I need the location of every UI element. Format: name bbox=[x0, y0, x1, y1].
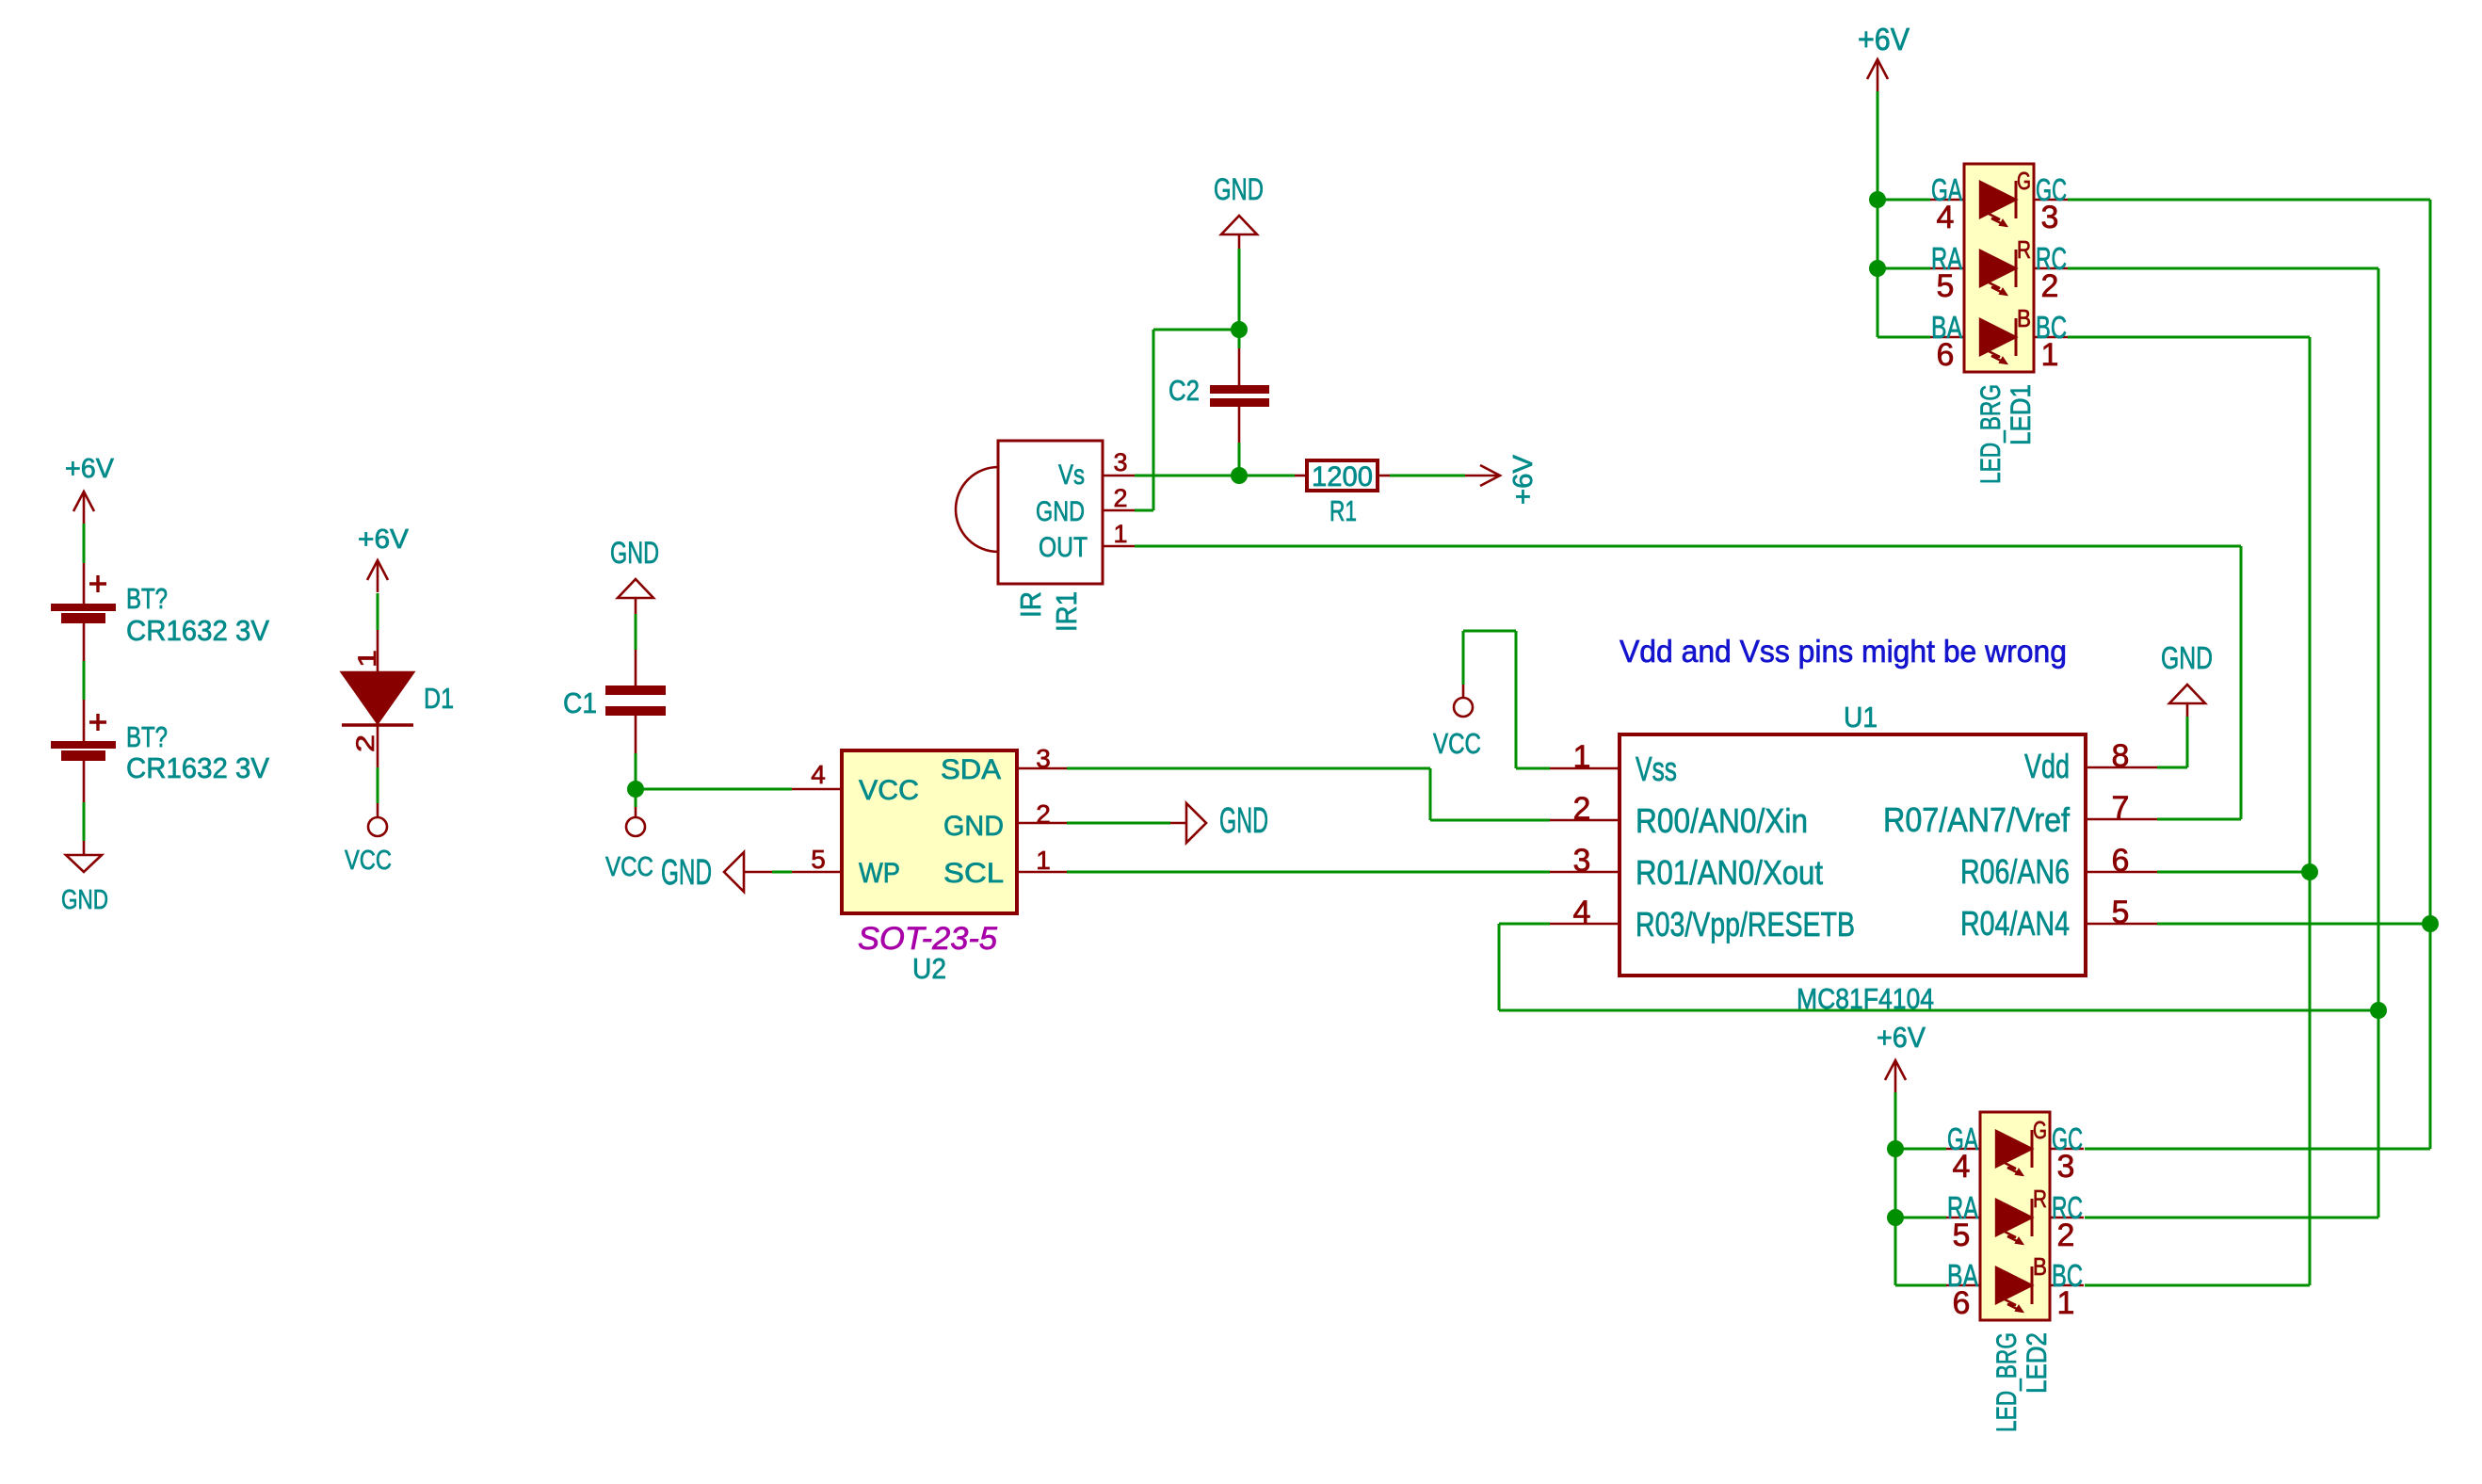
svg-text:2: 2 bbox=[351, 734, 379, 752]
svg-text:R07/AN7/Vref: R07/AN7/Vref bbox=[1883, 800, 2071, 839]
svg-text:+6V: +6V bbox=[1858, 22, 1910, 56]
svg-text:3: 3 bbox=[1036, 744, 1051, 773]
svg-text:5: 5 bbox=[1937, 268, 1955, 304]
svg-text:2: 2 bbox=[1113, 484, 1127, 512]
svg-text:Vss: Vss bbox=[1636, 750, 1677, 788]
svg-text:1200: 1200 bbox=[1312, 461, 1373, 492]
svg-text:+6V: +6V bbox=[358, 524, 410, 555]
svg-text:3: 3 bbox=[2057, 1149, 2075, 1185]
svg-text:5: 5 bbox=[811, 845, 826, 874]
svg-text:1: 1 bbox=[2041, 337, 2059, 373]
svg-text:2: 2 bbox=[1036, 799, 1051, 829]
svg-text:4: 4 bbox=[1937, 200, 1955, 235]
svg-text:B: B bbox=[2017, 304, 2031, 332]
svg-text:1: 1 bbox=[1573, 739, 1591, 775]
svg-text:VCC: VCC bbox=[859, 775, 919, 806]
svg-text:LED1: LED1 bbox=[2006, 384, 2037, 445]
svg-text:VCC: VCC bbox=[345, 846, 392, 876]
svg-text:IR: IR bbox=[1014, 591, 1047, 618]
svg-text:1: 1 bbox=[353, 650, 381, 668]
svg-text:R00/AN0/Xin: R00/AN0/Xin bbox=[1636, 801, 1808, 840]
svg-text:1: 1 bbox=[2057, 1285, 2075, 1321]
svg-text:7: 7 bbox=[2112, 790, 2130, 826]
svg-text:GND: GND bbox=[661, 853, 712, 893]
svg-text:G: G bbox=[2017, 167, 2031, 195]
svg-text:B: B bbox=[2033, 1252, 2047, 1281]
svg-text:R: R bbox=[2017, 235, 2031, 264]
svg-text:2: 2 bbox=[1573, 791, 1591, 827]
svg-text:U2: U2 bbox=[912, 952, 946, 985]
svg-text:GND: GND bbox=[943, 811, 1004, 842]
svg-text:Vdd: Vdd bbox=[2024, 747, 2070, 785]
svg-text:SDA: SDA bbox=[941, 754, 1001, 785]
svg-text:GND: GND bbox=[1219, 801, 1268, 841]
svg-text:GND: GND bbox=[61, 885, 108, 915]
svg-text:GND: GND bbox=[2161, 640, 2213, 675]
svg-text:R03/Vpp/RESETB: R03/Vpp/RESETB bbox=[1636, 905, 1855, 944]
svg-text:VCC: VCC bbox=[1433, 727, 1481, 760]
svg-text:Vdd and Vss pins might be wron: Vdd and Vss pins might be wrong bbox=[1620, 634, 2067, 669]
svg-text:CR1632 3V: CR1632 3V bbox=[126, 751, 269, 784]
svg-text:+6V: +6V bbox=[65, 454, 115, 484]
svg-text:3: 3 bbox=[2041, 200, 2059, 235]
svg-text:6: 6 bbox=[1953, 1285, 1971, 1321]
svg-text:6: 6 bbox=[2112, 843, 2130, 879]
svg-text:CR1632 3V: CR1632 3V bbox=[126, 614, 269, 647]
svg-text:R: R bbox=[2033, 1185, 2047, 1213]
svg-text:LED2: LED2 bbox=[2022, 1332, 2053, 1394]
svg-text:6: 6 bbox=[1937, 337, 1955, 373]
svg-text:8: 8 bbox=[2112, 738, 2130, 774]
svg-text:VCC: VCC bbox=[605, 852, 653, 882]
svg-text:+6V: +6V bbox=[1508, 454, 1539, 505]
svg-text:4: 4 bbox=[1573, 895, 1591, 930]
svg-text:Vs: Vs bbox=[1058, 460, 1085, 491]
svg-text:R01/AN0/Xout: R01/AN0/Xout bbox=[1636, 853, 1823, 892]
svg-text:+6V: +6V bbox=[1877, 1021, 1926, 1054]
svg-text:R04/AN4: R04/AN4 bbox=[1960, 904, 2070, 943]
svg-text:BT?: BT? bbox=[126, 582, 168, 615]
svg-text:LED_BRG: LED_BRG bbox=[1991, 1332, 2023, 1432]
svg-text:GND: GND bbox=[1214, 172, 1264, 206]
svg-text:OUT: OUT bbox=[1039, 532, 1088, 563]
svg-text:R06/AN6: R06/AN6 bbox=[1960, 852, 2070, 891]
svg-text:3: 3 bbox=[1573, 843, 1591, 879]
svg-text:5: 5 bbox=[2112, 895, 2130, 930]
svg-text:LED_BRG: LED_BRG bbox=[1975, 384, 2007, 484]
svg-text:1: 1 bbox=[1036, 846, 1051, 875]
svg-text:G: G bbox=[2033, 1116, 2047, 1144]
svg-text:U1: U1 bbox=[1844, 701, 1878, 734]
svg-text:5: 5 bbox=[1953, 1218, 1971, 1253]
svg-text:WP: WP bbox=[859, 858, 900, 889]
svg-text:IR1: IR1 bbox=[1050, 591, 1083, 632]
svg-text:D1: D1 bbox=[424, 682, 454, 715]
svg-text:R1: R1 bbox=[1330, 494, 1357, 527]
svg-text:4: 4 bbox=[811, 760, 826, 789]
svg-text:4: 4 bbox=[1953, 1149, 1971, 1185]
svg-text:1: 1 bbox=[1113, 520, 1127, 548]
svg-text:2: 2 bbox=[2041, 268, 2059, 304]
svg-text:3: 3 bbox=[1113, 448, 1127, 476]
svg-text:GND: GND bbox=[610, 536, 659, 570]
svg-text:2: 2 bbox=[2057, 1218, 2075, 1253]
svg-text:C1: C1 bbox=[563, 686, 597, 719]
svg-text:BT?: BT? bbox=[126, 720, 168, 753]
svg-text:SCL: SCL bbox=[943, 858, 1004, 889]
svg-text:C2: C2 bbox=[1168, 374, 1200, 407]
svg-text:GND: GND bbox=[1036, 496, 1085, 527]
